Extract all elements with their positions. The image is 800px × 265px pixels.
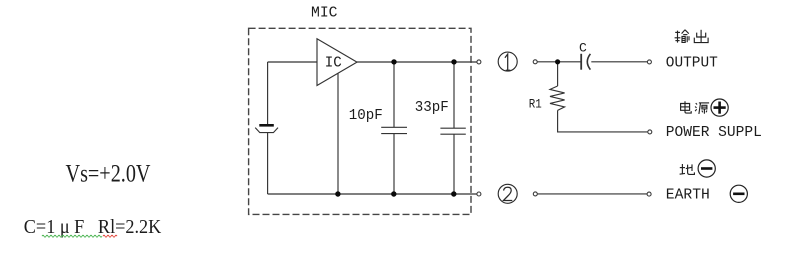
- svg-text:Vs=+2.0V: Vs=+2.0V: [66, 160, 151, 187]
- svg-text:MIC: MIC: [311, 6, 338, 22]
- svg-text:33pF: 33pF: [415, 100, 449, 116]
- svg-text:IC: IC: [325, 56, 342, 72]
- svg-text:EARTH: EARTH: [666, 188, 710, 204]
- svg-text:POWER SUPPL: POWER SUPPL: [666, 125, 762, 141]
- svg-text:C=1 μ F Rl=2.2K: C=1 μ F Rl=2.2K: [24, 216, 162, 238]
- svg-text:OUTPUT: OUTPUT: [666, 55, 718, 71]
- svg-text:10pF: 10pF: [349, 108, 383, 124]
- svg-text:C: C: [579, 41, 587, 56]
- svg-text:R1: R1: [529, 97, 542, 112]
